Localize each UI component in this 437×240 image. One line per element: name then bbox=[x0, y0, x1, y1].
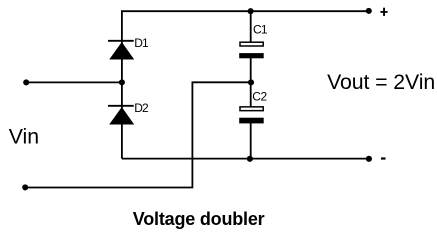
svg-text:Vin: Vin bbox=[9, 124, 39, 148]
svg-text:C1: C1 bbox=[253, 23, 268, 37]
svg-text:D1: D1 bbox=[134, 36, 149, 50]
svg-text:Voltage doubler: Voltage doubler bbox=[133, 209, 265, 229]
svg-text:D2: D2 bbox=[134, 101, 149, 115]
svg-text:C2: C2 bbox=[252, 89, 267, 103]
svg-text:Vout = 2Vin: Vout = 2Vin bbox=[327, 70, 435, 94]
